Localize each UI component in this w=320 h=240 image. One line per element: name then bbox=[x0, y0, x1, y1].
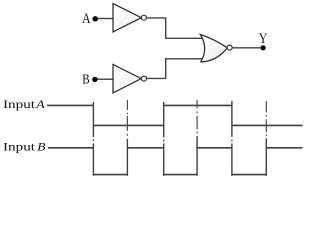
waveform A high segment 1 bbox=[47, 104, 93, 106]
svg-text:InputA: InputA bbox=[3, 97, 46, 111]
waveform A low segment 2 bbox=[232, 124, 303, 126]
svg-text:InputB: InputB bbox=[3, 140, 46, 154]
svg-text:Y: Y bbox=[259, 31, 268, 47]
marker t2 dash-dot + B rise edge bbox=[126, 100, 128, 110]
NOR gate U3 bubble bbox=[227, 45, 232, 50]
wire NOR output bbox=[232, 47, 263, 49]
wire U1 output to NOR input 1 bbox=[147, 18, 203, 38]
waveform B low segment 1 bbox=[93, 174, 127, 176]
wire B input bbox=[98, 78, 114, 80]
node B terminal dot bbox=[92, 77, 97, 82]
inverter U1 bubble bbox=[141, 15, 146, 20]
inverter U2 bubble bbox=[141, 76, 146, 81]
svg-text:B: B bbox=[82, 73, 89, 88]
waveform B high segment 4 bbox=[266, 147, 302, 149]
edge t5 A+B transitions with dash-dot gap bbox=[231, 101, 233, 137]
node A terminal dot bbox=[93, 16, 98, 21]
marker t6 dash-dot + B rise edge bbox=[265, 101, 267, 112]
NOR gate U3 body bbox=[200, 35, 227, 62]
node Y terminal dot bbox=[261, 45, 266, 50]
waveform A high segment 2 bbox=[164, 104, 232, 106]
waveform B high segment 1 bbox=[48, 147, 94, 149]
marker t4 dash-dot + B rise edge bbox=[196, 100, 198, 108]
waveform A low segment 1 bbox=[93, 124, 163, 126]
inverter U2 triangle bbox=[113, 64, 141, 93]
svg-text:A: A bbox=[82, 11, 91, 27]
waveform B high segment 3 bbox=[197, 147, 232, 149]
waveform B low segment 3 bbox=[232, 174, 266, 176]
waveform B high segment 2 bbox=[127, 147, 163, 149]
edge t1 A+B transitions with dash-dot gap bbox=[92, 102, 94, 137]
inverter U1 triangle bbox=[113, 4, 141, 32]
waveform B low segment 2 bbox=[164, 174, 197, 176]
edge t3 A+B transitions with dash-dot gap bbox=[163, 102, 165, 138]
wire U2 output to NOR input 2 bbox=[147, 59, 203, 79]
wire A input bbox=[98, 18, 113, 20]
